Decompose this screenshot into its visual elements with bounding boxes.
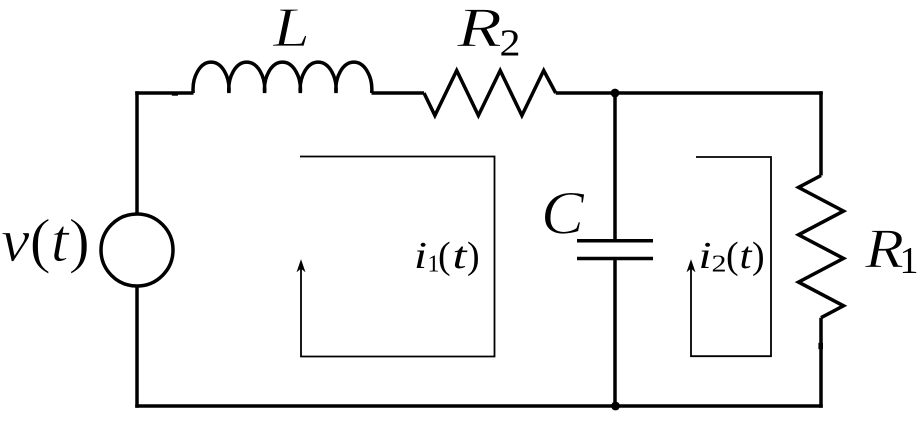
wire right upper [819,91,823,175]
svg-text:C: C [541,180,585,247]
mesh loop i2 [691,157,771,356]
wire between L and R2 [372,91,425,95]
svg-text:): ) [752,235,765,277]
svg-text:R: R [456,0,502,59]
svg-text:i: i [699,235,712,277]
capacitor upper wire [613,93,617,243]
svg-text:v(t): v(t) [1,208,90,275]
arrow head i1 [297,259,306,272]
wire R2 to top-right corner [556,91,823,95]
inductor L [193,62,372,93]
wire joint artifact left of inductor [172,91,178,95]
svg-text:): ) [467,235,480,277]
capacitor lower wire [613,259,617,407]
wire joint artifact below R1 [818,343,823,349]
svg-text:i: i [414,235,427,277]
wire left upper [135,91,139,214]
junction dot top node [611,89,620,98]
svg-text:L: L [272,0,310,59]
svg-text:(: ( [726,235,739,277]
resistor R1 zigzag [799,176,844,318]
junction dot bottom node [611,402,620,411]
svg-text:2: 2 [500,22,521,64]
svg-text:(: ( [438,235,451,277]
wire left lower [135,286,139,408]
svg-text:1: 1 [900,240,919,282]
svg-text:2: 2 [712,252,727,278]
wire right lower [819,318,823,408]
svg-text:R: R [864,218,904,280]
resistor R2 zigzag [424,71,556,116]
wire bottom [135,404,823,408]
mesh loop i1 [300,157,495,357]
capacitor C plates [577,241,653,259]
source v(t) circle [101,214,173,286]
arrow head i2 [687,259,696,272]
wire top left segment [135,91,193,95]
